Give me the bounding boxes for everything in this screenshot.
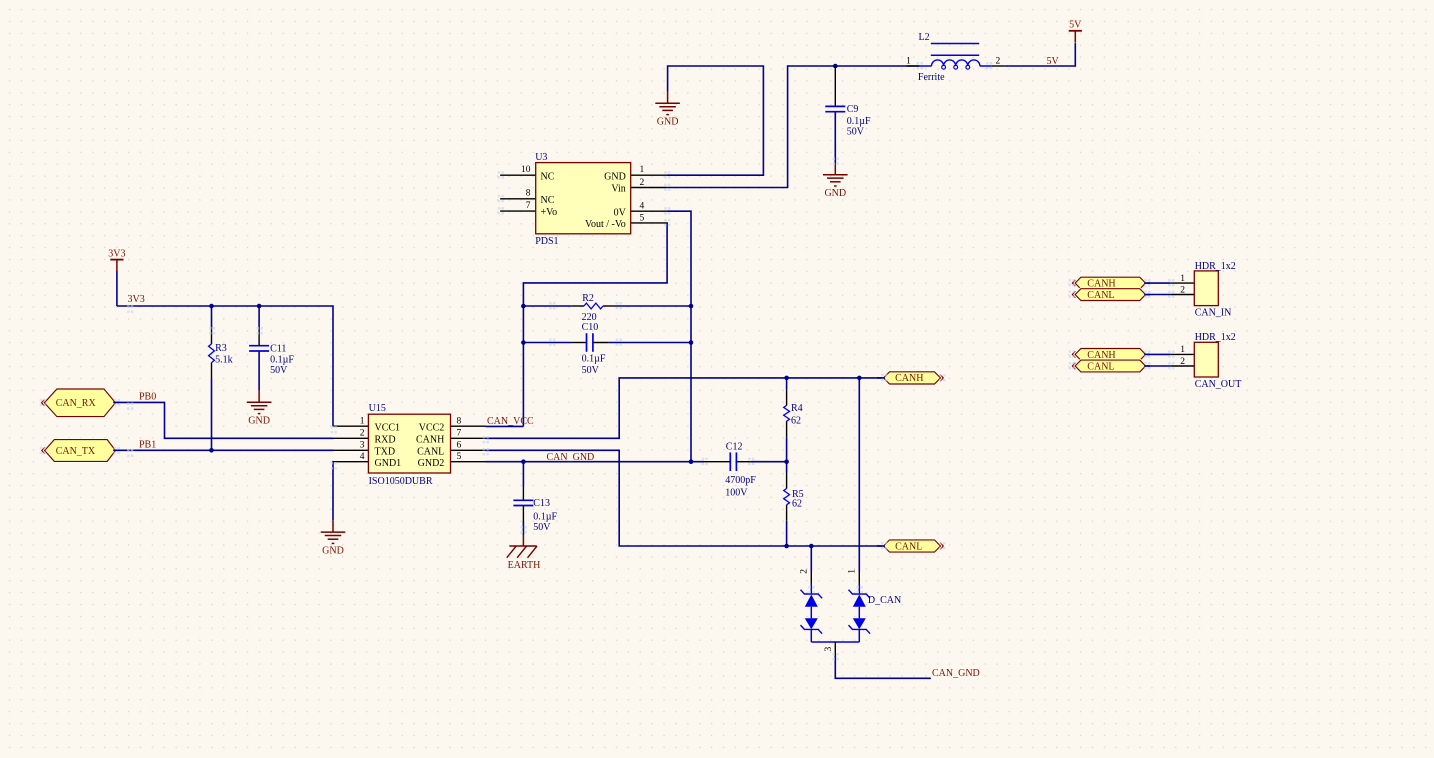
svg-text:50V: 50V [270,365,288,376]
svg-text:GND: GND [657,117,679,128]
svg-text:NC: NC [541,171,555,182]
svg-text:50V: 50V [533,522,551,533]
svg-text:R3: R3 [215,343,227,354]
svg-text:50V: 50V [582,365,600,376]
svg-text:4: 4 [360,452,365,462]
svg-text:TXD: TXD [375,447,396,458]
svg-text:CAN_IN: CAN_IN [1195,308,1232,319]
svg-text:3V3: 3V3 [128,294,145,305]
svg-text:C11: C11 [270,343,286,354]
svg-text:5: 5 [457,452,462,462]
svg-text:5V: 5V [1047,56,1060,67]
svg-text:Ferrite: Ferrite [918,72,945,83]
svg-text:CANL: CANL [1087,290,1114,301]
svg-text:CAN_GND: CAN_GND [547,452,595,463]
svg-text:U15: U15 [369,403,386,414]
svg-text:C13: C13 [533,498,550,509]
svg-text:50V: 50V [847,126,865,137]
svg-text:GND: GND [322,546,344,557]
svg-text:5V: 5V [1069,20,1082,31]
svg-text:HDR_1x2: HDR_1x2 [1195,332,1236,343]
svg-text:0.1µF: 0.1µF [270,355,294,366]
svg-text:Vin: Vin [611,184,625,195]
svg-text:5: 5 [640,213,645,223]
svg-text:2: 2 [1180,357,1185,367]
svg-text:ISO1050DUBR: ISO1050DUBR [369,476,433,487]
svg-text:Vout / -Vo: Vout / -Vo [585,219,626,230]
svg-text:CANH: CANH [416,435,444,446]
svg-text:GND2: GND2 [418,458,445,469]
svg-text:C9: C9 [847,104,859,115]
svg-text:100V: 100V [725,487,748,498]
svg-text:2: 2 [1180,286,1185,296]
svg-text:R2: R2 [582,293,594,304]
svg-text:CAN_RX: CAN_RX [56,398,97,409]
svg-text:2: 2 [800,569,810,574]
svg-text:0V: 0V [614,207,627,218]
svg-text:C10: C10 [582,322,599,333]
svg-text:3: 3 [360,441,365,451]
svg-text:10: 10 [521,165,531,175]
svg-text:CANH: CANH [895,373,923,384]
svg-text:0.1µF: 0.1µF [582,354,606,365]
svg-text:R4: R4 [791,403,803,414]
svg-text:CAN_GND: CAN_GND [932,668,980,679]
svg-text:HDR_1x2: HDR_1x2 [1195,261,1236,272]
svg-text:1: 1 [906,57,911,67]
svg-text:8: 8 [457,416,462,426]
svg-text:GND1: GND1 [375,458,402,469]
svg-text:GND: GND [248,416,270,427]
svg-text:3V3: 3V3 [108,248,125,259]
svg-text:GND: GND [824,188,846,199]
svg-text:EARTH: EARTH [508,560,541,571]
svg-text:5.1k: 5.1k [215,355,233,366]
svg-text:2: 2 [996,57,1001,67]
svg-text:CANL: CANL [1087,361,1114,372]
svg-text:GND: GND [604,171,626,182]
svg-text:6: 6 [457,441,462,451]
svg-text:1: 1 [1180,345,1185,355]
svg-text:CAN_VCC: CAN_VCC [487,416,534,427]
svg-text:RXD: RXD [375,435,396,446]
svg-text:7: 7 [457,429,462,439]
svg-text:VCC2: VCC2 [419,422,445,433]
svg-text:2: 2 [640,178,645,188]
svg-text:+Vo: +Vo [541,207,558,218]
svg-text:CANL: CANL [895,541,922,552]
svg-text:1: 1 [360,416,365,426]
svg-text:8: 8 [526,189,531,199]
svg-text:C12: C12 [726,442,743,453]
svg-text:3: 3 [824,647,834,652]
svg-text:4700pF: 4700pF [725,475,756,486]
svg-text:CANL: CANL [417,447,444,458]
svg-text:7: 7 [526,201,531,211]
svg-text:4: 4 [640,202,645,212]
svg-text:CAN_TX: CAN_TX [56,446,96,457]
svg-text:VCC1: VCC1 [375,422,401,433]
svg-text:62: 62 [792,499,802,510]
svg-text:CAN_OUT: CAN_OUT [1195,379,1242,390]
svg-text:PDS1: PDS1 [535,236,558,247]
svg-text:U3: U3 [535,152,547,163]
svg-text:NC: NC [541,195,555,206]
svg-text:1: 1 [1180,274,1185,284]
svg-text:D_CAN: D_CAN [868,595,901,606]
svg-text:62: 62 [791,415,801,426]
svg-text:0.1µF: 0.1µF [533,512,557,523]
svg-text:L2: L2 [919,32,930,43]
svg-text:1: 1 [848,569,858,574]
svg-text:PB0: PB0 [139,392,156,403]
svg-text:PB1: PB1 [139,440,156,451]
svg-text:1: 1 [640,165,645,175]
svg-text:2: 2 [360,429,365,439]
